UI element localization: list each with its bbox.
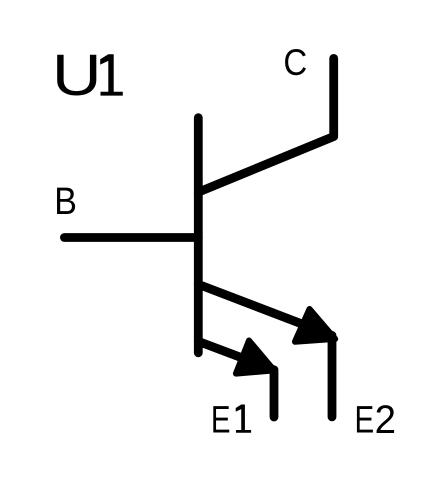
svg-text:E: E [211, 399, 231, 441]
svg-text:2: 2 [375, 397, 396, 442]
svg-text:B: B [54, 179, 77, 222]
svg-text:E: E [355, 399, 375, 441]
svg-text:C: C [283, 42, 307, 83]
svg-text:U: U [52, 42, 102, 108]
